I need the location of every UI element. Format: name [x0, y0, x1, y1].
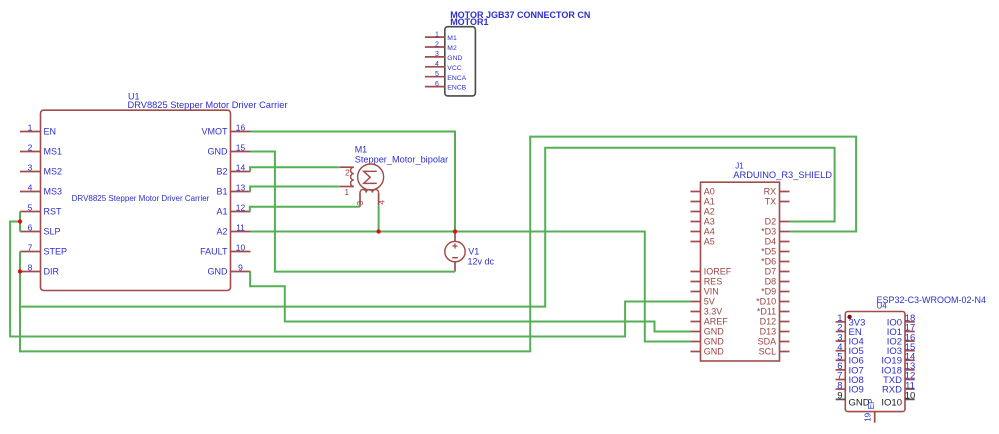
U4 pin 13 IO18	[881, 361, 915, 376]
wire B2 pin14 to motor pin 2	[250, 167, 340, 171]
svg-text:14: 14	[236, 162, 246, 172]
svg-text:M2: M2	[447, 45, 457, 52]
svg-text:4: 4	[377, 200, 387, 205]
J1 right pin *D10	[756, 297, 789, 307]
svg-text:DRV8825 Stepper Motor Driver C: DRV8825 Stepper Motor Driver Carrier	[72, 194, 210, 203]
wire STEP pin7 to J1 D2	[20, 148, 835, 307]
svg-text:D12: D12	[760, 317, 777, 327]
svg-text:DIR: DIR	[44, 267, 60, 277]
svg-text:IO9: IO9	[849, 385, 864, 396]
svg-text:B2: B2	[216, 167, 227, 177]
svg-text:J1: J1	[735, 161, 744, 170]
svg-text:A1: A1	[216, 207, 227, 217]
wire GND pin9 to J1 GND	[250, 272, 690, 332]
U4 pin 10 IO10 (gray)	[881, 391, 915, 409]
junction RST/SLP node	[18, 219, 22, 223]
svg-text:5V: 5V	[704, 297, 715, 307]
J1 left pin A2	[691, 207, 715, 217]
J1 right pin *D9	[761, 287, 789, 297]
U1 pin 12 A1	[216, 202, 250, 216]
U4 pin 8 IO9	[836, 380, 864, 395]
MOTOR1 pin 5 ENCA	[425, 71, 467, 82]
U1 pin 9 GND	[208, 262, 251, 276]
svg-text:EN: EN	[44, 127, 57, 137]
J1 left pin AREF	[691, 317, 729, 327]
svg-text:GND: GND	[447, 55, 462, 62]
U4 pin 2 EN	[836, 323, 862, 338]
J1 right pin SCL	[759, 347, 790, 357]
U4 pin 3 IO4	[836, 332, 864, 347]
U1 pin 2 MS1	[20, 142, 62, 156]
svg-text:1: 1	[344, 187, 349, 197]
svg-text:6: 6	[435, 81, 439, 88]
MOTOR1 pin 3 GND	[425, 51, 463, 62]
svg-text:ESP32-C3-WROOM-02-N4: ESP32-C3-WROOM-02-N4	[877, 295, 987, 305]
svg-text:4: 4	[435, 61, 439, 68]
MOTOR1 pin 6 ENCB	[425, 81, 467, 92]
svg-text:TX: TX	[765, 197, 777, 207]
svg-text:IO10: IO10	[881, 398, 902, 409]
svg-text:D7: D7	[765, 267, 777, 277]
MOTOR1 pin 1 M1	[425, 31, 457, 42]
svg-text:AREF: AREF	[704, 317, 729, 327]
svg-text:B1: B1	[216, 187, 227, 197]
wire A1 pin12 to motor pin 3	[250, 207, 360, 212]
J1 right pin D8	[765, 277, 790, 287]
J1 left pin 5V	[691, 297, 715, 307]
svg-text:1: 1	[28, 122, 33, 132]
U1 pin 1 EN	[20, 122, 56, 136]
svg-text:ENCB: ENCB	[447, 85, 466, 92]
U4 pin 17 IO1	[887, 323, 916, 338]
svg-text:MS1: MS1	[44, 147, 63, 157]
J1 right pin *D3	[761, 227, 789, 237]
J1 left pin RES	[691, 277, 723, 287]
junction VMOT / V1+ / A2	[453, 229, 457, 233]
wire GND pin15 to V1-	[250, 152, 455, 272]
svg-text:RES: RES	[704, 277, 723, 287]
svg-text:D4: D4	[765, 237, 777, 247]
svg-text:13: 13	[236, 182, 246, 192]
J1 left pin A0	[691, 187, 715, 197]
svg-text:*D11: *D11	[757, 307, 776, 317]
U4 pin 1 3V3	[836, 313, 866, 328]
U1 pin 8 DIR	[20, 262, 60, 276]
svg-text:SLP: SLP	[44, 227, 61, 237]
J1 left pin GND	[691, 337, 725, 347]
svg-text:GND: GND	[208, 147, 229, 157]
svg-text:VMOT: VMOT	[202, 127, 229, 137]
svg-text:SCL: SCL	[759, 347, 777, 357]
svg-text:EP: EP	[867, 399, 876, 410]
svg-text:16: 16	[236, 122, 246, 132]
svg-text:RST: RST	[44, 207, 63, 217]
J1 right pin *D11	[757, 307, 790, 317]
svg-text:19: 19	[863, 412, 872, 421]
svg-text:4: 4	[28, 182, 33, 192]
J1 left pin A1	[691, 197, 715, 207]
svg-text:12v dc: 12v dc	[468, 256, 495, 266]
U4 pin 19 EP pad	[863, 399, 875, 423]
U1 pin 4 MS3	[20, 182, 62, 196]
svg-text:5: 5	[435, 71, 439, 78]
IC U4 ESP32-C3-WROOM-02-N4 body	[845, 295, 986, 412]
J1 right pin D4	[765, 237, 790, 247]
U4 pin 6 IO7	[836, 361, 864, 376]
svg-text:ARDUINO_R3_SHIELD: ARDUINO_R3_SHIELD	[733, 170, 832, 180]
svg-text:2: 2	[345, 167, 350, 177]
J1 left pin A3	[691, 217, 715, 227]
svg-text:GND: GND	[704, 337, 725, 347]
connector MOTOR1 JGB37 body	[445, 10, 591, 96]
U4 pin 11 RXD	[882, 380, 915, 395]
U4 pin 9 GND (gray)	[836, 391, 870, 409]
J1 left pin A4	[691, 227, 715, 237]
svg-text:FAULT: FAULT	[200, 247, 228, 257]
svg-text:RXD: RXD	[882, 385, 902, 396]
svg-text:15: 15	[236, 142, 246, 152]
J1 left pin A5	[691, 237, 715, 247]
J1 left pin 3.3V	[691, 307, 723, 317]
motor M1 left winding, pins 2 (top) and 1 (bottom)	[340, 167, 354, 197]
svg-text:10: 10	[236, 242, 246, 252]
junction DIR node	[18, 269, 22, 273]
svg-text:11: 11	[236, 222, 245, 232]
J1 left pin VIN	[691, 287, 719, 297]
U4 pin-1 marker dot	[847, 315, 851, 319]
svg-text:*D6: *D6	[761, 257, 776, 267]
junction motor pin4 / A2	[376, 229, 380, 233]
U4 pin 12 TXD	[883, 371, 915, 386]
svg-text:A1: A1	[704, 197, 715, 207]
svg-text:MS3: MS3	[44, 187, 63, 197]
svg-text:3.3V: 3.3V	[704, 307, 723, 317]
svg-text:MOTOR1: MOTOR1	[450, 17, 488, 27]
svg-text:DRV8825 Stepper Motor Driver C: DRV8825 Stepper Motor Driver Carrier	[128, 100, 288, 110]
svg-text:GND: GND	[704, 347, 725, 357]
svg-text:VCC: VCC	[447, 65, 461, 72]
wire DIR pin8 to J1 *D3	[20, 137, 856, 352]
J1 left pin GND	[691, 347, 725, 357]
svg-text:12: 12	[236, 202, 246, 212]
J1 right pin D12	[760, 317, 790, 327]
U1 pin 10 FAULT	[200, 242, 250, 256]
svg-text:IOREF: IOREF	[704, 267, 732, 277]
svg-text:8: 8	[28, 262, 33, 272]
U4 pin 7 IO8	[836, 371, 864, 386]
svg-text:7: 7	[28, 242, 33, 252]
MOTOR1 pin 4 VCC	[425, 61, 462, 72]
motor M1 bottom winding, pins 3 (left) and 4 (right)	[355, 190, 387, 207]
svg-text:D13: D13	[760, 327, 777, 337]
J1 right pin TX	[765, 197, 790, 207]
svg-text:*D9: *D9	[761, 287, 776, 297]
svg-text:GND: GND	[208, 267, 229, 277]
svg-text:2: 2	[435, 41, 439, 48]
wire RST/SLP node to J1 5V	[10, 222, 690, 337]
J1 left pin GND	[691, 327, 725, 337]
U1 pin 5 RST	[20, 202, 62, 216]
motor M1 labels	[355, 145, 448, 165]
svg-text:D2: D2	[765, 217, 777, 227]
svg-text:MS2: MS2	[44, 167, 63, 177]
svg-text:M1: M1	[355, 145, 368, 155]
U4 pin 18 IO0	[887, 313, 916, 328]
svg-text:A2: A2	[704, 207, 715, 217]
svg-text:10: 10	[905, 391, 916, 402]
svg-text:*D10: *D10	[756, 297, 776, 307]
svg-text:D8: D8	[765, 277, 777, 287]
svg-text:3: 3	[355, 201, 365, 206]
svg-text:6: 6	[28, 222, 33, 232]
svg-text:*D3: *D3	[761, 227, 776, 237]
svg-text:9: 9	[238, 262, 243, 272]
U1 pin 13 B1	[216, 182, 250, 196]
svg-text:5: 5	[28, 202, 33, 212]
svg-text:STEP: STEP	[44, 247, 68, 257]
svg-text:M1: M1	[447, 35, 457, 42]
svg-text:GND: GND	[704, 327, 725, 337]
U1 pin 6 SLP	[20, 222, 61, 236]
svg-text:A4: A4	[704, 227, 715, 237]
svg-text:3: 3	[435, 51, 439, 58]
J1 right pin SDA	[758, 337, 790, 347]
U4 pin 4 IO5	[836, 342, 864, 357]
U1 pin 14 B2	[216, 162, 250, 176]
U1 pin 16 VMOT	[202, 122, 251, 136]
J1 right pin D2	[765, 217, 790, 227]
motor M1 body circle with rotated-M glyph	[358, 164, 384, 190]
wire A2 pin11 to J1 GND	[250, 232, 690, 342]
svg-text:U4: U4	[877, 301, 888, 310]
J1 right pin RX	[764, 187, 790, 197]
svg-text:A0: A0	[704, 187, 715, 197]
U1 pin 3 MS2	[20, 162, 62, 176]
U1 pin 11 A2	[216, 222, 250, 236]
U4 pin 16 IO2	[887, 332, 916, 347]
svg-text:A2: A2	[216, 227, 227, 237]
svg-text:3: 3	[28, 162, 33, 172]
wire B1 pin13 to motor pin 1	[250, 187, 340, 192]
U1 pin 7 STEP	[20, 242, 67, 256]
svg-text:2: 2	[28, 142, 33, 152]
svg-text:RX: RX	[764, 187, 777, 197]
J1 right pin D7	[765, 267, 790, 277]
wire RST/SLP tie	[19, 212, 21, 232]
MOTOR1 pin 2 M2	[425, 41, 457, 52]
svg-text:SDA: SDA	[758, 337, 777, 347]
J1 right pin *D6	[761, 257, 789, 267]
svg-text:Stepper_Motor_bipolar: Stepper_Motor_bipolar	[355, 155, 448, 165]
J1 left pin IOREF	[691, 267, 732, 277]
U4 pin 15 IO3	[887, 342, 916, 357]
wire motor pin 4 down to A2 net	[378, 205, 380, 231]
U4 pin 5 IO6	[836, 352, 864, 367]
J1 right pin *D5	[761, 247, 789, 257]
voltage source V1 12v dc	[445, 234, 495, 272]
IC U1 DRV8825 Stepper Motor Driver Carrier body	[41, 91, 288, 290]
svg-text:VIN: VIN	[704, 287, 719, 297]
connector J1 ARDUINO_R3_SHIELD body	[701, 161, 833, 361]
svg-text:9: 9	[837, 391, 842, 402]
U4 pin 14 IO19	[881, 352, 915, 367]
U1 pin 15 GND	[208, 142, 251, 156]
svg-text:V1: V1	[468, 247, 479, 257]
svg-text:*D5: *D5	[761, 247, 776, 257]
wire VMOT pin16 to V1+ / A2 node	[251, 132, 456, 235]
J1 right pin D13	[760, 327, 790, 337]
svg-text:1: 1	[435, 31, 439, 38]
svg-text:A5: A5	[704, 237, 715, 247]
svg-text:A3: A3	[704, 217, 715, 227]
svg-text:ENCA: ENCA	[447, 75, 466, 82]
